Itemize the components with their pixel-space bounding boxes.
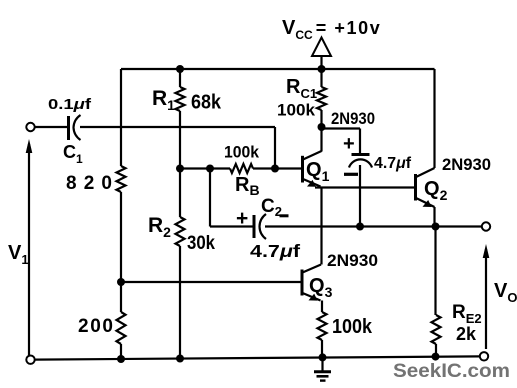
junction dot bottom rail left (117, 355, 125, 363)
wire Vcc to rail (320, 56, 322, 69)
junction dot R1 top (176, 65, 184, 73)
bottom rail wire (35, 356, 480, 359)
Vcc triangle (312, 38, 331, 57)
junction dot Q2 emitter output (432, 223, 440, 231)
svg-text:820: 820 (66, 173, 112, 194)
junction dot Q1 base (271, 165, 279, 173)
junction dot bottom rail R2 (176, 355, 184, 363)
V0 arrow (485, 249, 487, 349)
transistor Q3 (301, 270, 304, 296)
junction dot Vcc (318, 65, 326, 73)
resistor R1 68k (176, 87, 185, 111)
transistor Q2 (414, 174, 417, 201)
svg-text:2k: 2k (456, 323, 477, 344)
V1 arrow (28, 144, 30, 356)
capacitor 4.7uf bootstrap (352, 153, 370, 156)
junction dot bottom rail RE2 (432, 353, 440, 361)
svg-text:+: + (343, 133, 355, 155)
output terminal bottom (480, 352, 488, 360)
svg-text:2N930: 2N930 (327, 252, 378, 270)
svg-text:100k: 100k (332, 315, 373, 338)
svg-text:200: 200 (78, 316, 113, 337)
svg-text:100k: 100k (224, 143, 259, 162)
output terminal top (482, 222, 490, 230)
label minus top cap (344, 173, 358, 176)
wire cap to output line (359, 165, 361, 227)
wire Vcc node to RC1 (320, 69, 322, 87)
resistor 100k Q3 emitter (318, 312, 327, 340)
junction dot bootstrap cap bottom (356, 223, 364, 231)
wire RE2 branch (434, 227, 437, 357)
resistor RC1 100k (317, 87, 326, 110)
svg-text:68k: 68k (191, 92, 222, 114)
resistor RE2 2k (432, 315, 441, 344)
capacitor C2 4.7uf (253, 215, 256, 238)
label minus C2 (280, 214, 289, 217)
transistor Q1 (301, 156, 304, 183)
junction dot bottom rail ground (319, 353, 327, 361)
wire RB row (180, 167, 301, 169)
ground (321, 357, 323, 370)
svg-text:2N930: 2N930 (331, 110, 375, 128)
wire 100k to ground rail (321, 340, 323, 357)
wire C1 to base bend (80, 127, 275, 169)
junction dot Q1 collector (318, 123, 326, 131)
capacitor C1 (67, 116, 70, 140)
input terminal top (26, 123, 34, 131)
wire output line (265, 225, 482, 227)
junction dot R1-R2-RB (176, 165, 184, 173)
wire C2 left branch (210, 169, 253, 227)
wire input to C1 (35, 126, 67, 128)
resistor 820 (117, 166, 126, 192)
svg-text:100k: 100k (277, 101, 316, 120)
junction dot Q3 base divider (117, 278, 125, 286)
wire Q1 emitter to Q2 base (315, 186, 414, 188)
svg-text:+: + (236, 207, 248, 230)
wire RC1 to Q1 collector node (320, 110, 322, 127)
junction dot C2 top (206, 165, 214, 173)
resistor R2 30k (176, 217, 185, 246)
wire Q1 emitter down to Q3 collector (320, 188, 322, 265)
svg-text:4.7μf: 4.7μf (250, 241, 300, 261)
svg-text:30k: 30k (187, 233, 215, 254)
wire left vertical branch (820/200 chain) (120, 69, 122, 359)
wire R1/R2 vertical branch (179, 69, 181, 359)
top rail wire (121, 68, 435, 70)
input terminal bottom (26, 356, 34, 364)
svg-text:4.7μf: 4.7μf (374, 155, 412, 172)
wire Q1 collector to bootstrap cap (322, 129, 361, 154)
svg-text:SeekIC.com: SeekIC.com (393, 360, 510, 382)
svg-text:0.1μf: 0.1μf (48, 96, 92, 113)
resistor 200 (117, 312, 126, 344)
wire Q3 base (121, 281, 301, 283)
svg-text:2N930: 2N930 (442, 156, 491, 174)
resistor RB 100k (230, 164, 253, 173)
